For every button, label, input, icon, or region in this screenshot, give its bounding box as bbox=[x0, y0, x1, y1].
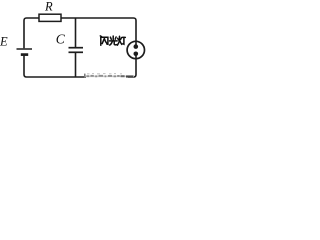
watermark darkest end bar bbox=[126, 75, 133, 77]
svg-text:E: E bbox=[0, 34, 8, 48]
flash lamp bottom electrode stub bbox=[135, 56, 137, 59]
resistor R1 box bbox=[39, 14, 61, 21]
wire left lower segment bbox=[24, 56, 86, 77]
watermark faint text segments on bottom wire bbox=[87, 75, 120, 78]
wire top-left segment bbox=[24, 18, 39, 48]
flash lamp circle bbox=[127, 41, 144, 58]
watermark vertical tick bbox=[84, 74, 86, 78]
capacitor C top plate bbox=[69, 47, 84, 49]
battery E long plate bbox=[17, 48, 33, 50]
capacitor branch wire lower bbox=[75, 53, 77, 77]
wire top-right segment bbox=[61, 18, 136, 41]
svg-text:C: C bbox=[56, 31, 66, 46]
svg-text:R: R bbox=[44, 0, 53, 13]
watermark underlying faint line bbox=[84, 75, 134, 77]
flash lamp top electrode stub bbox=[135, 41, 137, 44]
flash lamp top electrode dot bbox=[134, 44, 139, 49]
battery E short plate bbox=[21, 53, 28, 56]
watermark darker dash cluster bbox=[121, 75, 125, 77]
label 闪光灯 char 闪 bbox=[100, 36, 108, 45]
label 闪光灯 char 灯 bbox=[117, 36, 125, 45]
flash lamp bottom electrode dot bbox=[134, 52, 139, 57]
wire bottom-right segment bbox=[128, 59, 136, 77]
label 闪光灯 char 光 bbox=[110, 36, 118, 45]
capacitor branch wire upper bbox=[75, 18, 77, 47]
capacitor C bottom plate bbox=[69, 51, 84, 53]
watermark upper specks bbox=[87, 73, 122, 75]
